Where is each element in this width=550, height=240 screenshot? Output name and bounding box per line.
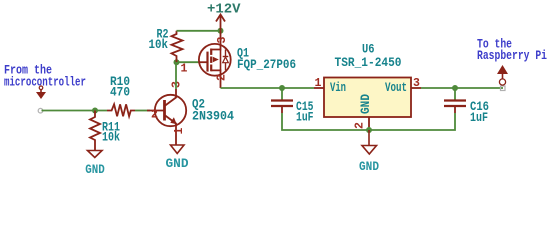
U6 pin 3 line: [411, 87, 421, 89]
svg-text:+12V: +12V: [207, 2, 241, 17]
svg-text:Vout: Vout: [385, 81, 407, 95]
svg-text:GND: GND: [166, 156, 189, 171]
capacitor C16: [444, 90, 466, 113]
power symbol +12V: [216, 15, 225, 31]
wire: input net: [42, 110, 151, 112]
resistor R2: [172, 31, 183, 62]
svg-text:3: 3: [216, 36, 229, 43]
svg-text:3: 3: [413, 77, 420, 90]
annotation arrow (down, left): [36, 86, 46, 99]
svg-text:Raspberry Pi: Raspberry Pi: [477, 49, 547, 63]
svg-text:1: 1: [315, 77, 322, 90]
svg-text:FQP_27P06: FQP_27P06: [237, 58, 296, 72]
ground symbol (below R11): [88, 151, 103, 158]
svg-text:1: 1: [181, 63, 188, 76]
junction: ground rail / U6 pin 2: [366, 127, 372, 133]
transistor Q2 2N3904: [147, 89, 186, 145]
svg-text:10k: 10k: [102, 131, 120, 145]
svg-text:3: 3: [171, 81, 184, 88]
svg-text:GND: GND: [359, 159, 379, 174]
svg-text:2: 2: [151, 109, 158, 122]
svg-text:2: 2: [354, 122, 367, 129]
capacitor C15: [271, 90, 293, 113]
ground symbol (below U6): [362, 130, 377, 154]
svg-text:2N3904: 2N3904: [192, 110, 234, 124]
wire: Q2 collector to R2/gate junction: [175, 62, 177, 89]
junction: +12V: [218, 28, 224, 34]
regulator U6 TSR_1-2450: [324, 78, 411, 118]
svg-text:Vin: Vin: [330, 81, 346, 95]
wire: Q1 drain to U6 Vin: [221, 87, 315, 89]
svg-text:TSR_1-2450: TSR_1-2450: [335, 56, 402, 70]
wire: bottom ground rail: [282, 113, 455, 130]
junction: C15 top: [279, 85, 285, 91]
annotation arrow (up, right): [497, 65, 508, 85]
resistor R10: [107, 104, 135, 116]
svg-text:microcontroller: microcontroller: [4, 76, 86, 90]
junction: C16 top: [452, 85, 458, 91]
wire: R2 top to +12V rail: [177, 30, 221, 32]
svg-text:U6: U6: [362, 43, 375, 57]
wire end marker (left): [38, 108, 43, 113]
svg-text:2: 2: [216, 74, 229, 81]
wire end marker (right): [501, 86, 506, 91]
U6 pin 1 line: [314, 87, 324, 89]
svg-text:10k: 10k: [149, 38, 169, 52]
wire: U6 pin2 to rail: [368, 127, 370, 130]
svg-text:470: 470: [110, 86, 130, 100]
svg-text:GND: GND: [359, 94, 373, 114]
U6 pin 2 line: [368, 117, 370, 127]
junction: input/R11: [92, 108, 98, 114]
junction: R2/Q2/Q1 gate: [174, 59, 180, 65]
wire: U6 Vout to output: [421, 87, 503, 89]
svg-text:1uF: 1uF: [296, 111, 314, 125]
ground symbol (below Q2): [171, 145, 185, 154]
svg-text:GND: GND: [85, 162, 105, 176]
wire: junction to Q1 gate: [176, 61, 199, 63]
svg-text:1uF: 1uF: [470, 111, 488, 125]
transistor Q1 FQP_27P06: [199, 31, 231, 88]
resistor R11: [90, 111, 100, 151]
svg-text:1: 1: [173, 127, 186, 134]
